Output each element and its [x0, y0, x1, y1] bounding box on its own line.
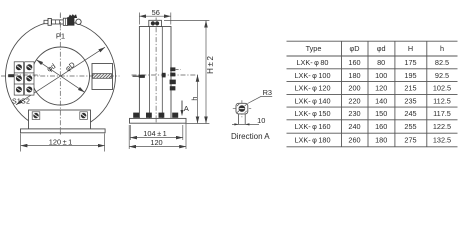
svg-text:180: 180	[348, 71, 360, 80]
dim 120±1: extension line left	[20, 134, 22, 152]
primary terminal: shaft tick 2	[59, 20, 61, 24]
dim 104±1: extension lines	[129, 125, 131, 140]
svg-text:260: 260	[348, 136, 360, 145]
wire: vertical dash-dot centerline front view	[59, 13, 61, 135]
dim H±2: top extension line	[164, 19, 209, 21]
table body text	[294, 58, 451, 145]
detail foot plate (rounded R3)	[236, 103, 248, 114]
primary terminal: left nut	[48, 18, 51, 25]
R3 leader line	[248, 96, 273, 103]
svg-text:φD: φD	[349, 44, 359, 53]
direction-A arrow	[181, 101, 183, 114]
inner front-face line	[148, 27, 150, 119]
svg-text:LXK- φ 150: LXK- φ 150	[294, 109, 330, 118]
wire: vertical dash-dot centerline side view	[155, 18, 157, 119]
nameplate hatched strip	[93, 74, 112, 79]
svg-text:122.5: 122.5	[433, 122, 451, 131]
dim 120±1: dimension line	[21, 145, 105, 147]
table horizontal lines	[287, 40, 458, 42]
dim 56: extension lines	[138, 13, 140, 25]
svg-text:275: 275	[404, 136, 416, 145]
svg-text:φd: φd	[45, 61, 57, 73]
detail hatch marks	[237, 104, 247, 113]
dim 10: dimension line	[232, 123, 259, 125]
dim 104±1: dimension line	[130, 137, 183, 139]
svg-text:LXK- φ 80: LXK- φ 80	[297, 58, 329, 67]
svg-text:160: 160	[348, 58, 360, 67]
svg-text:120: 120	[375, 84, 387, 93]
svg-text:R3: R3	[263, 88, 272, 97]
bracket screw right	[80, 112, 88, 120]
terminal bolt end 2	[155, 21, 159, 25]
svg-text:LXK- φ 120: LXK- φ 120	[294, 84, 330, 93]
primary terminal: scribble above nut	[69, 15, 77, 18]
dim 10: arrowheads	[234, 123, 238, 125]
primary terminal P1 assembly: left stub	[44, 20, 49, 23]
svg-text:h: h	[190, 97, 199, 101]
svg-text:120: 120	[150, 138, 162, 147]
table header text	[306, 44, 444, 53]
svg-text:92.5: 92.5	[435, 71, 449, 80]
svg-text:LXK- φ 100: LXK- φ 100	[294, 71, 330, 80]
svg-text:LXK- φ 160: LXK- φ 160	[294, 122, 330, 131]
wire: horizontal dash-dot centerline side view	[132, 74, 199, 76]
slot side lines below detail	[238, 114, 240, 125]
svg-text:240: 240	[348, 122, 360, 131]
primary terminal: flange	[63, 18, 67, 25]
dim H±2: dimension line	[205, 21, 207, 124]
svg-text:Type: Type	[306, 44, 322, 53]
svg-text:H: H	[408, 44, 413, 53]
svg-text:104 ± 1: 104 ± 1	[143, 129, 166, 138]
svg-text:117.5: 117.5	[433, 109, 451, 118]
table vertical separators	[341, 41, 343, 147]
primary terminal: shaft	[52, 20, 64, 24]
wire: horizontal dash-dot centerline front view	[1, 75, 120, 77]
detail centerline horizontal	[233, 108, 251, 110]
svg-text:LXK- φ 180: LXK- φ 180	[294, 136, 330, 145]
foot nuts row (four)	[133, 113, 178, 118]
feet flange strip	[130, 118, 187, 123]
detail centerline vertical	[241, 100, 243, 117]
svg-text:200: 200	[348, 84, 360, 93]
top terminal box (side)	[149, 20, 162, 26]
svg-text:82.5: 82.5	[435, 58, 449, 67]
dim 56: dimension line	[139, 15, 170, 17]
bracket screw left	[32, 112, 40, 120]
short dash-dot at upper terminal	[176, 68, 181, 70]
svg-text:φD: φD	[63, 60, 76, 73]
svg-text:180: 180	[375, 136, 387, 145]
nameplate / terminal box (right, front view)	[92, 64, 113, 90]
svg-text:150: 150	[375, 109, 387, 118]
side body outline	[139, 27, 171, 119]
svg-text:φd: φd	[377, 44, 386, 53]
svg-text:A: A	[184, 104, 190, 113]
terminal screws S1S2: six screw heads	[16, 64, 32, 92]
svg-text:10: 10	[257, 116, 265, 125]
svg-text:100: 100	[375, 71, 387, 80]
svg-text:H ± 2: H ± 2	[206, 56, 215, 74]
svg-text:120 ± 1: 120 ± 1	[49, 138, 72, 147]
secondary terminal bolts (right edge of side view)	[170, 67, 176, 90]
mounting bracket (front view)	[29, 110, 91, 129]
svg-text:230: 230	[348, 109, 360, 118]
primary terminal: shaft tick 1	[55, 20, 57, 24]
inner front-face line right	[161, 27, 163, 119]
svg-text:215: 215	[404, 84, 416, 93]
dimension line phi-d	[37, 60, 85, 92]
base plate (front view)	[21, 129, 106, 133]
dim 120±1: extension line right	[104, 134, 106, 152]
dim 120 (side): extension lines	[128, 125, 130, 149]
outer circle (body phi-D)	[6, 21, 116, 131]
S1S2 lug seen from side (left edge)	[133, 75, 145, 77]
svg-text:S1S2: S1S2	[12, 98, 30, 105]
dim 120: dimension line	[129, 146, 186, 148]
terminal mark on centerline	[162, 73, 166, 78]
tap lug (dark bar on centerline, left)	[8, 74, 14, 77]
terminal bolt end 1	[151, 21, 155, 25]
svg-text:112.5: 112.5	[433, 96, 451, 105]
svg-text:195: 195	[404, 71, 416, 80]
svg-text:56: 56	[152, 8, 160, 17]
svg-text:Direction A: Direction A	[231, 132, 270, 141]
dim H±2: bottom extension line	[187, 123, 210, 125]
svg-text:175: 175	[404, 58, 416, 67]
svg-text:LXK- φ 140: LXK- φ 140	[294, 96, 330, 105]
svg-text:255: 255	[404, 122, 416, 131]
secondary terminal block S1S2 (left)	[14, 62, 34, 95]
svg-text:160: 160	[375, 122, 387, 131]
svg-text:220: 220	[348, 96, 360, 105]
svg-text:132.5: 132.5	[433, 136, 451, 145]
detail screw	[239, 106, 245, 112]
inner circle (window phi-d)	[32, 47, 90, 105]
dimension line phi-D	[16, 47, 105, 105]
svg-text:h: h	[440, 44, 444, 53]
primary terminal: dark nut	[68, 18, 74, 26]
svg-text:245: 245	[404, 109, 416, 118]
svg-text:235: 235	[404, 96, 416, 105]
primary terminal: right cap	[76, 19, 81, 24]
svg-text:80: 80	[377, 58, 385, 67]
dim h: dimension line	[197, 75, 199, 123]
svg-text:102.5: 102.5	[433, 84, 451, 93]
svg-text:140: 140	[375, 96, 387, 105]
svg-text:P1: P1	[56, 32, 65, 41]
